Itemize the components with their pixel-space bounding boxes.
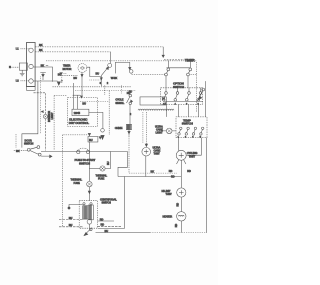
svg-text:HEATER: HEATER <box>163 215 173 219</box>
wire bridge up-over <box>115 62 130 73</box>
heater element <box>177 212 186 221</box>
push to start left terminal <box>77 150 80 153</box>
svg-text:BK: BK <box>16 149 20 153</box>
L2 wire to heater arrow <box>33 80 57 82</box>
svg-text:SIGNAL: SIGNAL <box>115 101 124 105</box>
door feed stub <box>14 149 27 151</box>
svg-text:SWITCH: SWITCH <box>24 142 33 146</box>
svg-text:L2: L2 <box>16 79 19 83</box>
ultra care light lamp <box>166 128 172 134</box>
svg-text:FUSE: FUSE <box>74 181 81 185</box>
motor bottom terminal <box>87 220 92 225</box>
timer contact T2 arm <box>188 71 190 74</box>
push to start actuator arc <box>77 148 89 151</box>
svg-text:RD: RD <box>127 91 131 95</box>
svg-text:3: 3 <box>185 136 187 138</box>
connector box mid <box>88 137 98 143</box>
centrifugal pivot circle <box>90 228 93 231</box>
mid dotted rails <box>75 90 136 92</box>
timer contact T2 drop <box>189 61 191 68</box>
push-to-start rail <box>41 151 128 153</box>
heater feed arrow <box>57 82 60 85</box>
terminal L1 circle <box>29 48 33 52</box>
motor right wire 2 <box>98 225 122 227</box>
svg-text:A: A <box>41 111 45 113</box>
junction arrow <box>162 55 164 57</box>
svg-text:2: 2 <box>130 112 132 116</box>
option contact 4 <box>197 92 202 101</box>
thermal fuse right circle <box>100 166 105 171</box>
door switch pivot circle <box>27 148 30 151</box>
svg-text:N: N <box>9 65 11 69</box>
wire fuse to motor <box>88 187 90 201</box>
timer motor inner marks <box>80 67 84 69</box>
wire dot to motor <box>69 205 83 209</box>
svg-text:BK: BK <box>151 169 155 173</box>
terminal block bottom extension <box>27 87 36 91</box>
wire cycling to hi-limit <box>180 160 182 187</box>
door switch arm down <box>30 151 38 155</box>
chime box <box>126 124 131 129</box>
svg-text:CHIME: CHIME <box>115 126 123 130</box>
cycling thst feed 2 <box>186 138 201 156</box>
timer dashed right edge <box>195 62 197 112</box>
lamp lower wire <box>44 119 46 151</box>
wire rail to fuse <box>105 152 110 169</box>
heater feed line <box>118 176 181 178</box>
timer contact T2 top circle <box>189 68 192 71</box>
svg-text:BU: BU <box>106 161 110 165</box>
svg-text:BU: BU <box>82 101 86 105</box>
cycling thermostat <box>176 150 186 160</box>
svg-text:SWITCH: SWITCH <box>102 201 111 205</box>
svg-text:THST: THST <box>189 154 196 158</box>
option contact 3 <box>186 92 191 101</box>
T junction bar <box>73 94 81 96</box>
wire L2 down branch <box>22 81 38 148</box>
fuse left link <box>89 168 100 170</box>
TM bottom arrow <box>81 74 83 76</box>
svg-text:LIGHT: LIGHT <box>50 112 54 119</box>
wire drops option to temp <box>165 105 167 117</box>
svg-text:BU: BU <box>69 216 73 220</box>
wire dashed to TIMER label <box>164 59 184 61</box>
control output wire <box>89 112 103 128</box>
svg-text:L1: L1 <box>16 47 19 51</box>
TM bottom wire <box>81 72 83 95</box>
wire pivot drop <box>100 76 102 86</box>
winding top terminals <box>83 203 85 205</box>
svg-text:12345: 12345 <box>74 111 81 115</box>
drive motor box <box>79 201 97 229</box>
push rail corner down <box>118 152 128 177</box>
connector box <box>140 97 166 105</box>
arm arrowhead <box>106 67 108 70</box>
wire drop to motor switch <box>110 52 112 63</box>
motor winding 1 <box>83 206 88 219</box>
centrifugal arm <box>84 228 92 236</box>
chime lower wire <box>128 130 130 136</box>
svg-text:BU: BU <box>73 76 77 80</box>
wire signal to chime <box>129 105 131 125</box>
arrow above box <box>88 133 90 135</box>
dashed console drop left of ultra <box>142 112 144 143</box>
svg-text:W-BK: W-BK <box>111 76 118 80</box>
option switch box <box>161 88 203 105</box>
scalloped harness line <box>138 109 174 110</box>
svg-text:RD: RD <box>174 224 178 228</box>
svg-text:SWITCH: SWITCH <box>182 122 193 126</box>
arm arrowhead <box>84 233 88 236</box>
svg-text:BU: BU <box>96 72 100 76</box>
wire timer bar <box>167 67 191 69</box>
tick mark <box>61 80 63 82</box>
wire L2 stub <box>21 80 29 82</box>
cycle selector dashed box <box>68 97 98 126</box>
option contact 2 <box>174 92 179 101</box>
wire drop to timer <box>162 47 164 56</box>
cycling lower stubs <box>177 160 186 164</box>
svg-text:RD: RD <box>171 174 175 178</box>
wire BK second rail <box>35 51 110 53</box>
lamp stubs <box>161 130 177 132</box>
dotted drop left <box>61 75 63 83</box>
svg-text:FUSE: FUSE <box>98 177 105 181</box>
svg-text:BK: BK <box>39 43 43 47</box>
wire hi-limit to heater <box>180 197 182 211</box>
timer motor circle <box>78 64 87 73</box>
dotted stub <box>80 101 109 103</box>
svg-text:RD: RD <box>187 169 191 173</box>
door switch arm up <box>30 147 37 149</box>
heater lower wire <box>180 221 182 233</box>
ultra care thst feed <box>145 112 147 146</box>
wire L1 stub <box>21 48 29 50</box>
motor relay terminal circle <box>108 63 112 67</box>
timer contact T1 drop <box>167 61 169 68</box>
svg-text:LIGHT: LIGHT <box>156 131 163 135</box>
wire N stub <box>12 66 20 68</box>
interior light lamp <box>43 114 47 118</box>
program display box 12345 <box>72 109 89 115</box>
dashed rail timer contacts <box>132 74 197 76</box>
far right contact <box>198 88 204 100</box>
wire into control 1 <box>72 83 74 109</box>
motor bottom drop <box>88 224 90 228</box>
svg-text:BK: BK <box>39 48 43 52</box>
right rail upper <box>205 81 207 117</box>
right rail bottom corner <box>206 138 208 233</box>
svg-text:BU: BU <box>69 223 73 227</box>
lamp feed wire <box>34 93 46 115</box>
door lower stub + arrow <box>41 155 52 158</box>
feed arrow <box>145 144 147 147</box>
ultra care thermostat <box>142 147 151 156</box>
svg-text:RD: RD <box>169 169 173 173</box>
terminal L2 circle <box>29 79 33 83</box>
cycling thst feed 1 <box>177 138 179 151</box>
door switch terminal GY <box>37 146 40 149</box>
option bottom bar <box>163 100 203 102</box>
wire T1 down <box>165 76 167 88</box>
terminal N circle <box>29 64 33 68</box>
arrow fuse-motor <box>88 191 90 194</box>
T junction arrow <box>80 96 82 98</box>
temp contact 2 <box>185 127 189 135</box>
svg-text:2: 2 <box>107 81 109 85</box>
output terminal circle <box>101 129 105 133</box>
door switch terminal BU <box>38 153 41 156</box>
timer contact T1 arm <box>166 71 168 74</box>
wire BK top rail <box>35 46 163 48</box>
bridge lower circle <box>129 70 133 74</box>
hi-limit thermostat <box>177 188 186 197</box>
temp contact 3 <box>192 127 196 135</box>
svg-text:RD: RD <box>176 203 180 207</box>
option contact 1 <box>163 92 168 101</box>
timer contact T1 top circle <box>167 68 170 71</box>
motor left dot <box>68 207 70 209</box>
bottom rail dotted <box>150 232 207 234</box>
motor right wire 1 <box>98 220 115 222</box>
chime arrow <box>128 131 130 133</box>
svg-text:THST: THST <box>166 192 173 196</box>
svg-text:MOTOR: MOTOR <box>63 67 72 71</box>
svg-text:BU: BU <box>105 229 109 233</box>
connector arrow below <box>101 135 104 139</box>
terminal block TB1 body <box>27 43 36 87</box>
svg-text:RD: RD <box>100 218 104 222</box>
temp contact 4 <box>200 127 204 135</box>
relay switch arm <box>101 67 108 76</box>
svg-text:5: 5 <box>192 136 194 138</box>
svg-text:DRY CONTROL: DRY CONTROL <box>69 121 90 125</box>
console dashed left edge <box>53 96 55 151</box>
svg-text:RD: RD <box>101 223 105 227</box>
timer contact T2 bottom circle <box>187 73 190 76</box>
push to start right terminal <box>86 150 89 153</box>
bottom rail solid <box>96 232 151 234</box>
console dotted vertical near block <box>40 77 42 135</box>
console dashed left edge 2 <box>62 135 64 227</box>
cycle signal switch <box>127 94 133 104</box>
svg-text:6: 6 <box>186 104 188 106</box>
dashed drop to door feed <box>15 134 17 148</box>
chime dashed drop <box>128 136 130 173</box>
dotted link <box>129 172 177 174</box>
svg-text:SWITCH: SWITCH <box>79 161 90 165</box>
svg-text:BK: BK <box>41 63 45 67</box>
timer contact T1 bottom circle <box>165 73 168 76</box>
console dashed corner left <box>54 95 66 97</box>
ultra thst lower wire <box>145 156 147 177</box>
console dotted rail <box>46 60 196 62</box>
svg-text:BU: BU <box>89 138 93 142</box>
ground symbol <box>20 70 25 76</box>
temp switch box <box>176 117 207 138</box>
dashed bracket near fuse <box>98 177 124 229</box>
svg-text:4: 4 <box>175 103 177 106</box>
thermal fuse left circle <box>87 181 92 186</box>
option contact stubs <box>166 88 201 92</box>
dashed rail left of TM <box>60 74 78 76</box>
wire BU into motor 2 <box>59 226 83 228</box>
svg-text:THST: THST <box>154 152 161 156</box>
wire BU into motor 1 <box>59 219 83 221</box>
temp contact 1 <box>178 127 182 135</box>
motor winding 2 <box>88 205 93 220</box>
svg-text:SWITCH: SWITCH <box>173 85 184 89</box>
wire box down to fuse <box>88 142 90 181</box>
wire T2 down <box>187 76 189 88</box>
bridge arrowhead <box>129 67 131 69</box>
console dashed bottom rail <box>63 134 88 136</box>
wire N corner <box>33 67 52 82</box>
wire into control 2 <box>76 95 78 109</box>
console dashed mid vertical <box>108 91 110 136</box>
arrow right of box <box>99 137 101 139</box>
TM right wire <box>87 67 102 76</box>
neutral lug box <box>19 63 27 70</box>
connector tee symbol <box>40 73 46 80</box>
